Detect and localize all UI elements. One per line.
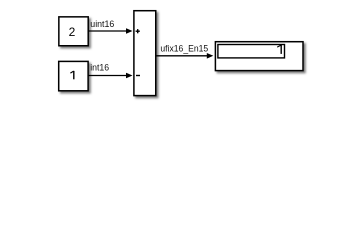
constant block C1 (value 1) [59,61,88,90]
display value digit 1 [277,45,281,54]
svg-text:int16: int16 [90,62,109,72]
display inner value box [218,45,285,58]
wire W3: sum to display [156,55,208,57]
value digit 1 of constant block C1 [70,71,73,79]
svg-text:ufix16_En15: ufix16_En15 [160,44,208,54]
arrowhead W2 [126,73,133,79]
sum block U1 [134,11,156,96]
minus sign on sum input 2 [136,75,140,76]
svg-text:2: 2 [69,25,76,39]
plus sign on sum input 1 [136,29,140,33]
wire W2: constant 1 to sum [88,75,127,77]
wire W1: constant 2 to sum [88,30,127,32]
constant block C2 (value 2) [59,17,88,46]
svg-text:uint16: uint16 [90,19,114,29]
arrowhead W3 [207,53,214,59]
display block D1 (outer) [215,42,303,71]
arrowhead W1 [126,28,133,34]
